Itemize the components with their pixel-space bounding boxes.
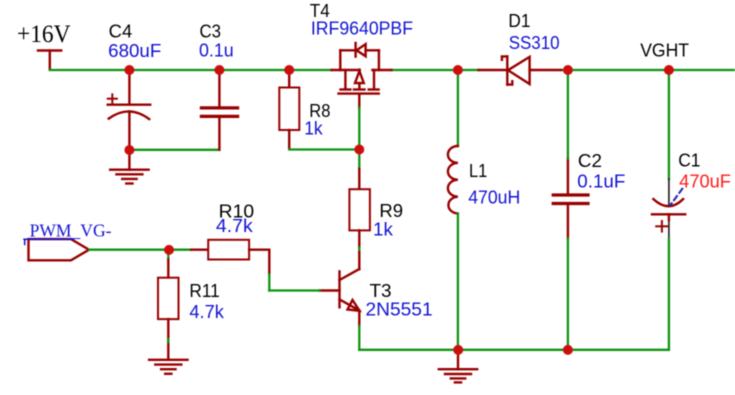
capacitor C2 (553, 159, 588, 239)
junction dot R8 top (284, 65, 294, 75)
ground under C4 (110, 150, 148, 184)
svg-text:0.1uF: 0.1uF (577, 171, 625, 191)
resistor R9 (349, 169, 370, 248)
wire R9 to T3 collector (358, 248, 360, 253)
resistor R11 (158, 250, 179, 360)
svg-text:PWM_VG-: PWM_VG- (30, 221, 112, 241)
svg-text:T3: T3 (370, 281, 392, 301)
wire top rail middle segment (T4 to D1) (392, 69, 479, 71)
svg-text:VGHT: VGHT (640, 40, 689, 60)
wire R8 bottom to gate node (289, 148, 359, 150)
svg-text:D1: D1 (508, 11, 530, 31)
svg-text:2N5551: 2N5551 (366, 299, 433, 319)
svg-text:R11: R11 (189, 281, 219, 301)
svg-text:4.7k: 4.7k (216, 216, 254, 236)
transistor T4 P-MOSFET (332, 43, 392, 108)
junction dot R11 top (164, 245, 174, 255)
svg-text:R9: R9 (379, 201, 403, 221)
svg-text:470uF: 470uF (679, 171, 731, 191)
svg-text:C4: C4 (109, 21, 133, 41)
diode D1 (479, 56, 562, 84)
wire T3 base (269, 289, 319, 291)
svg-text:470uH: 470uH (468, 188, 520, 208)
svg-text:C2: C2 (578, 151, 602, 171)
port PWM_VG- (29, 239, 90, 260)
wire R10 down to base wire (268, 275, 270, 291)
transistor T3 NPN (320, 252, 360, 326)
svg-text:C3: C3 (200, 21, 222, 41)
resistor R10 (191, 240, 269, 275)
junction dot VGHT (664, 65, 674, 75)
wire top rail left segment (50, 69, 332, 71)
wire C2 top (567, 70, 569, 159)
svg-text:L1: L1 (469, 161, 487, 181)
wire top rail right segment (D1 to right edge) (561, 69, 735, 71)
svg-text:680uF: 680uF (108, 41, 161, 61)
junction dot C4 top (124, 65, 134, 75)
port underline mark (24, 239, 74, 244)
junction dot C4 bottom (124, 145, 134, 155)
wire port to R10 (89, 249, 191, 251)
svg-text:+16V: +16V (17, 21, 71, 48)
junction dot C3 top (214, 65, 224, 75)
ground bottom center (439, 351, 477, 382)
junction dot L1 bottom (453, 345, 463, 355)
wire C1 bottom (668, 239, 670, 350)
svg-text:1k: 1k (304, 118, 323, 138)
junction dot gate node (354, 145, 364, 155)
svg-text:IRF9640PBF: IRF9640PBF (311, 19, 413, 39)
capacitor C1 (668, 70, 670, 179)
power symbol +16V (38, 51, 61, 70)
wire T3 emitter down (358, 326, 360, 350)
capacitor C4 (108, 70, 151, 150)
svg-text:4.7k: 4.7k (189, 302, 225, 322)
junction dot L1 top (453, 65, 463, 75)
capacitor C3 (201, 70, 237, 150)
wire gate node to R9 (358, 150, 360, 169)
junction dot C2 top (563, 65, 573, 75)
wire gate vertical (358, 108, 360, 150)
svg-text:C1: C1 (678, 151, 700, 171)
leader dashed line C1 (670, 189, 682, 205)
wire C4 to C3 bottom (129, 149, 219, 151)
svg-text:1k: 1k (373, 219, 394, 239)
junction dot C2 bottom (563, 345, 573, 355)
inductor L1 (457, 70, 459, 146)
wire C2 bottom (567, 239, 569, 350)
svg-text:SS310: SS310 (509, 33, 560, 53)
wire bottom rail (359, 349, 669, 351)
wire speck on R11 lower pin (167, 339, 169, 342)
ground under R11 (149, 360, 187, 374)
svg-text:0.1u: 0.1u (199, 41, 234, 61)
resistor R8 (279, 70, 299, 149)
